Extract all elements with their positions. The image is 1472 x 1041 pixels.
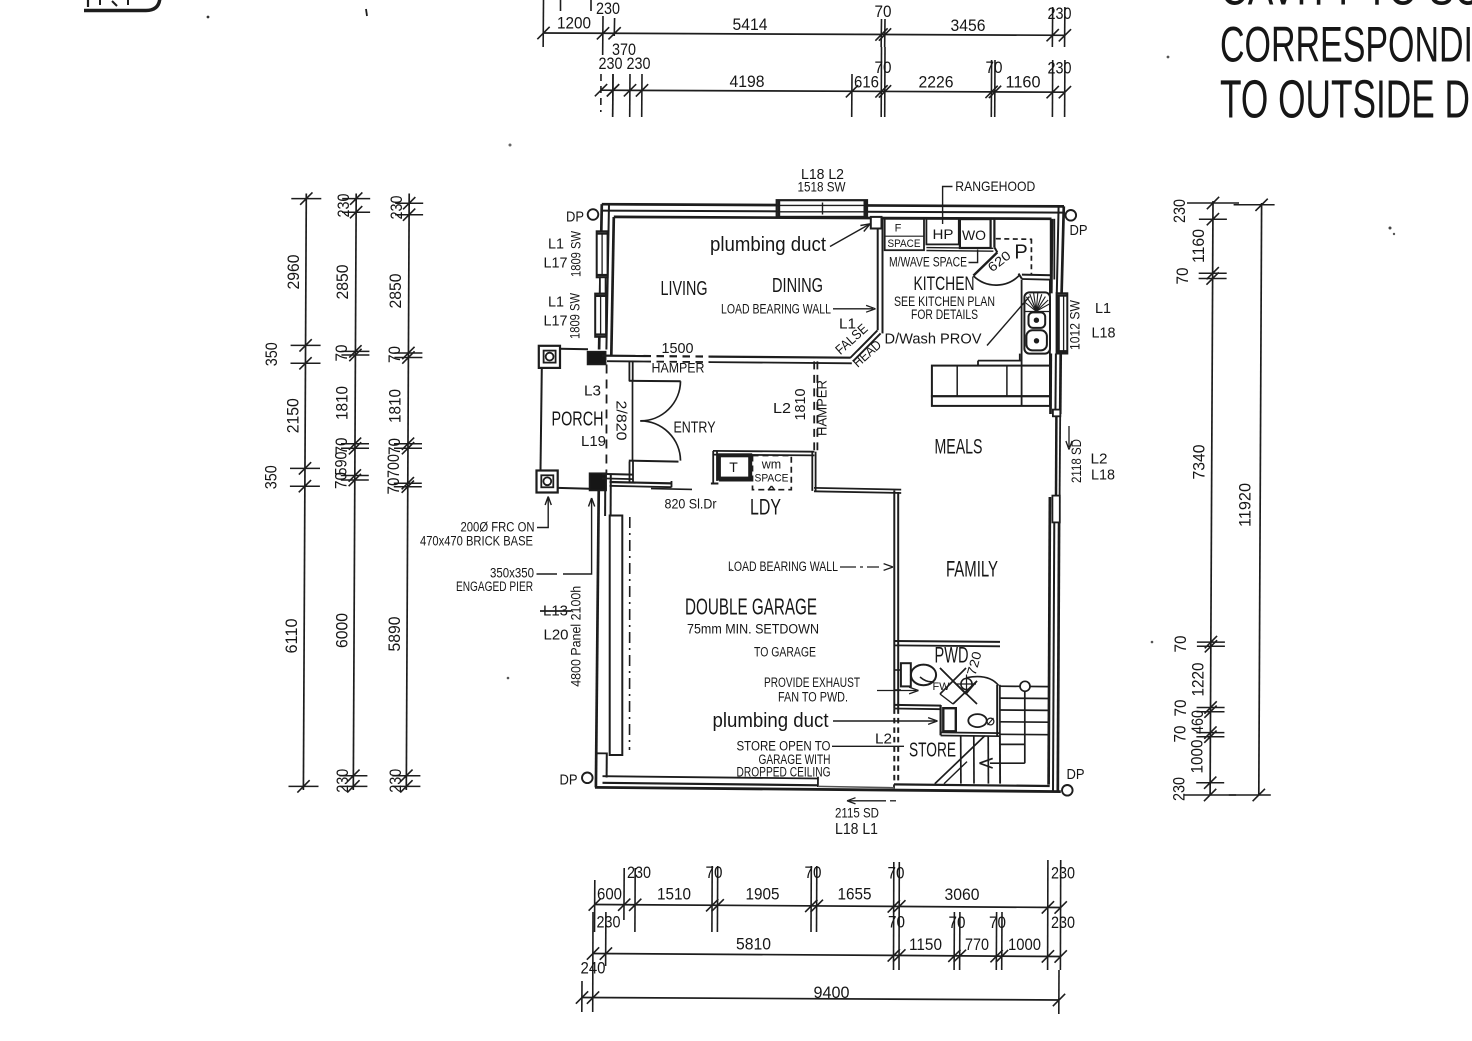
porch pier block bottom (solid) — [590, 473, 607, 490]
sink drainer fan — [1024, 311, 1050, 313]
svg-text:plumbing duct: plumbing duct — [710, 234, 826, 256]
vanity cross symbol 1 — [940, 668, 966, 694]
svg-text:350: 350 — [262, 465, 281, 489]
pantry lower jog + bottom wall — [1019, 274, 1022, 279]
entry door sill line — [629, 461, 679, 462]
svg-text:1000: 1000 — [1188, 740, 1207, 774]
svg-text:1905: 1905 — [746, 885, 780, 904]
wall: right exterior (outer+mid leafs) — [1062, 206, 1064, 293]
svg-text:70: 70 — [986, 58, 1003, 77]
svg-text:240: 240 — [581, 959, 606, 978]
svg-text:ENGAGED PIER: ENGAGED PIER — [456, 579, 533, 594]
svg-text:HP: HP — [933, 226, 954, 242]
svg-text:230: 230 — [386, 769, 405, 793]
right dim line D — [1210, 201, 1213, 796]
svg-text:DINING: DINING — [772, 275, 823, 297]
entry jamb vertical — [632, 381, 634, 461]
garage door panel rect — [610, 516, 623, 756]
stair break diagonal — [935, 736, 985, 784]
svg-text:FOR DETAILS: FOR DETAILS — [911, 307, 978, 322]
svg-text:wm: wm — [761, 457, 781, 471]
plumbing duct box (kitchen) — [871, 217, 882, 229]
svg-text:PWD: PWD — [935, 643, 969, 668]
svg-text:TO GARAGE: TO GARAGE — [754, 645, 816, 660]
svg-text:ENTRY: ENTRY — [674, 420, 716, 437]
svg-text:230: 230 — [1048, 59, 1072, 78]
porch edge top — [560, 348, 588, 350]
wall: false-head diagonal (dining/kitchen corner) — [850, 330, 877, 358]
svg-text:LIVING: LIVING — [661, 278, 708, 300]
wall: LDY right vertical (to family wall) — [811, 452, 813, 491]
svg-text:L2: L2 — [1091, 451, 1108, 468]
svg-text:70: 70 — [385, 438, 404, 455]
svg-text:F: F — [895, 223, 902, 235]
svg-text:2150: 2150 — [284, 398, 303, 433]
right dim line D ticks — [1187, 202, 1239, 204]
svg-text:7340: 7340 — [1190, 445, 1209, 480]
wall: bottom family inner leaf — [894, 784, 1050, 786]
svg-text:FAMILY: FAMILY — [946, 557, 998, 582]
svg-text:70: 70 — [989, 913, 1006, 932]
svg-text:PORCH: PORCH — [552, 409, 604, 431]
svg-text:70: 70 — [805, 863, 822, 882]
svg-text:2/820: 2/820 — [613, 401, 630, 441]
svg-text:1160: 1160 — [1189, 229, 1208, 263]
svg-text:L3: L3 — [584, 383, 601, 400]
left dim line B — [353, 194, 356, 791]
wall: 1810 hamper dashed vertical — [813, 361, 815, 450]
svg-text:70: 70 — [888, 864, 905, 883]
wall: bottom exterior outer — [595, 787, 1061, 791]
svg-text:TO OUTSIDE D: TO OUTSIDE D — [1220, 70, 1470, 130]
svg-text:1012 SW: 1012 SW — [1068, 300, 1083, 350]
row1 extension stubs from cut page — [560, 0, 562, 11]
svg-text:L18 L1: L18 L1 — [835, 821, 878, 838]
svg-text:230: 230 — [627, 863, 651, 882]
svg-text:DP: DP — [1070, 222, 1088, 239]
porch pier block top (solid) — [588, 352, 606, 365]
scan speck marks — [1389, 227, 1392, 230]
svg-text:5810: 5810 — [736, 935, 771, 954]
pantry door 620 swing arc — [973, 275, 1020, 286]
svg-text:DP: DP — [566, 209, 584, 226]
island bench — [932, 366, 1050, 397]
svg-text:230: 230 — [596, 0, 620, 18]
bottom dim row3 ticks — [581, 981, 583, 1012]
svg-text:70: 70 — [706, 863, 723, 882]
wall: left garage outer — [596, 474, 599, 788]
dimension row 2 ticks — [612, 74, 614, 117]
svg-text:DP: DP — [1067, 766, 1085, 783]
bottom dim row2 ticks — [592, 912, 594, 1012]
svg-text:CORRESPONDI: CORRESPONDI — [1220, 17, 1472, 73]
svg-text:590: 590 — [332, 452, 351, 476]
wall: LDY left + foot — [712, 451, 714, 485]
porch post bottom-left — [537, 471, 558, 493]
stair rail vertical — [1024, 691, 1026, 763]
svg-text:1809 SW: 1809 SW — [569, 231, 584, 277]
svg-text:T: T — [729, 459, 738, 475]
wall: family/garage load bearing — [893, 491, 895, 709]
svg-text:plumbing duct: plumbing duct — [713, 710, 829, 732]
svg-text:230: 230 — [334, 194, 353, 218]
door: 820 sliding panel line — [651, 488, 692, 491]
svg-text:700: 700 — [384, 454, 403, 478]
svg-text:STORE: STORE — [909, 740, 956, 762]
wall: front 1500 hamper dashed opening — [644, 355, 712, 358]
svg-text:1810: 1810 — [333, 386, 352, 420]
svg-text:KITCHEN: KITCHEN — [914, 274, 975, 295]
dimension row 2 line (370/230/4198/616/70/2226/70/1160/230) — [601, 90, 1065, 92]
bottom dim row1 line — [595, 905, 1061, 908]
svg-text:SPACE: SPACE — [888, 238, 921, 250]
wall: left garage top stub — [604, 474, 606, 517]
svg-text:230: 230 — [1051, 864, 1075, 883]
entry alcove bottom wall — [602, 473, 633, 476]
svg-text:2115 SD: 2115 SD — [835, 805, 879, 821]
svg-text:SPACE: SPACE — [755, 473, 789, 485]
svg-text:L18: L18 — [1091, 467, 1115, 484]
PWD vanity wall stub left — [894, 669, 901, 671]
wall: store dashed (open to garage) — [893, 708, 895, 783]
toilet bowl — [911, 665, 936, 686]
svg-text:WO: WO — [962, 227, 986, 243]
svg-text:1810: 1810 — [386, 389, 405, 423]
svg-text:LDY: LDY — [750, 495, 781, 520]
svg-text:600: 600 — [597, 885, 622, 904]
wall oven box WO — [960, 219, 991, 248]
svg-text:70: 70 — [385, 346, 404, 363]
kitchen inner wall right (pantry to top) — [1050, 219, 1052, 280]
svg-text:1518 SW: 1518 SW — [798, 180, 846, 195]
dimension row 1 line (1200/230/5414/70/3456/230) — [544, 33, 1066, 35]
svg-text:470x470 BRICK BASE: 470x470 BRICK BASE — [420, 534, 533, 549]
svg-text:L1: L1 — [548, 294, 564, 311]
bottom dim row1 ticks — [594, 880, 596, 932]
wall: 820 Sl.Dr wall segment + end hook — [610, 482, 672, 483]
svg-text:70: 70 — [949, 913, 966, 932]
svg-text:70: 70 — [875, 2, 892, 21]
vanity diamond edges — [940, 668, 953, 681]
window: 1809 SW lower (left wall) — [595, 294, 606, 337]
svg-text:L2: L2 — [773, 400, 791, 417]
svg-text:1500: 1500 — [662, 340, 694, 357]
svg-text:LOAD BEARING WALL: LOAD BEARING WALL — [721, 301, 831, 316]
svg-text:PROVIDE EXHAUST: PROVIDE EXHAUST — [764, 675, 860, 690]
svg-text:L2: L2 — [875, 731, 892, 748]
svg-text:1655: 1655 — [838, 885, 872, 904]
svg-text:1160: 1160 — [1006, 73, 1041, 92]
svg-text:5890: 5890 — [385, 617, 404, 652]
svg-text:70: 70 — [1171, 636, 1190, 653]
svg-text:L17: L17 — [544, 255, 568, 272]
wall: LDY top — [713, 450, 814, 453]
svg-text:230: 230 — [1170, 777, 1189, 801]
svg-text:5414: 5414 — [733, 15, 768, 34]
garage door dash-dot track — [629, 517, 631, 750]
svg-text:75mm MIN. SETDOWN: 75mm MIN. SETDOWN — [687, 622, 819, 637]
porch post top-left — [539, 346, 560, 368]
svg-text:460: 460 — [1188, 710, 1207, 734]
svg-text:4800 Panel 2100h: 4800 Panel 2100h — [569, 586, 584, 687]
pantry door leaf diagonal — [973, 252, 997, 275]
svg-text:LOAD BEARING WALL: LOAD BEARING WALL — [728, 559, 838, 574]
svg-text:2850: 2850 — [333, 265, 352, 300]
svg-text:CAVITY TO SU: CAVITY TO SU — [1220, 0, 1472, 16]
svg-text:230: 230 — [1170, 199, 1189, 223]
downpipe DP bottom-left — [582, 773, 593, 784]
svg-text:1000: 1000 — [1008, 935, 1041, 954]
svg-text:820 Sl.Dr: 820 Sl.Dr — [665, 496, 717, 512]
fridge space box F SPACE — [885, 219, 924, 250]
duct basin ellipse — [968, 714, 986, 727]
svg-text:3060: 3060 — [945, 885, 980, 904]
wall: right sliding door 2118 SD thin line — [1055, 415, 1058, 497]
bench front under HP/WO — [926, 247, 993, 250]
basin circle + crosshair — [961, 678, 972, 689]
svg-text:9400: 9400 — [814, 983, 850, 1002]
stair newel circle — [1020, 681, 1030, 691]
svg-text:230: 230 — [333, 769, 352, 793]
PWD bench curves — [920, 677, 934, 682]
wall: front south of living, solid left part — [602, 355, 644, 358]
sink bowl 2 — [1026, 330, 1047, 350]
window: 1518 SW (top wall) — [777, 200, 867, 217]
svg-text:70: 70 — [1173, 268, 1192, 285]
wall: right exterior inner leaf — [1050, 219, 1053, 293]
svg-text:1810: 1810 — [792, 389, 809, 421]
svg-text:350: 350 — [262, 342, 281, 366]
svg-text:L20: L20 — [544, 627, 569, 644]
left dim line B ticks — [342, 198, 370, 200]
svg-text:70: 70 — [384, 478, 403, 495]
svg-text:2850: 2850 — [386, 274, 405, 309]
svg-text:6000: 6000 — [333, 613, 352, 648]
svg-text:230: 230 — [599, 54, 623, 73]
stair treads upper flight — [1000, 685, 1049, 687]
svg-text:HAMPER: HAMPER — [814, 380, 830, 436]
wall: LDY/family horizontal — [814, 488, 901, 490]
left dim line C — [406, 194, 409, 791]
svg-text:L19: L19 — [581, 433, 606, 450]
svg-text:DOUBLE GARAGE: DOUBLE GARAGE — [685, 594, 817, 620]
porch boundary dashed line — [605, 365, 607, 475]
vanity cross symbol 2 — [953, 681, 977, 704]
svg-text:6110: 6110 — [282, 619, 301, 654]
svg-text:HAMPER: HAMPER — [652, 360, 705, 376]
wall: bottom garage inner leafs — [603, 776, 819, 778]
right dim line E ticks — [1234, 204, 1275, 206]
svg-text:L1: L1 — [1095, 300, 1111, 317]
entry double door arcs — [640, 381, 680, 421]
svg-text:200Ø FRC ON: 200Ø FRC ON — [461, 520, 535, 535]
false head tick line — [858, 337, 872, 351]
downpipe DP top-left — [588, 209, 599, 220]
sink bowl 1 — [1029, 312, 1046, 328]
entry alcove step verticals — [628, 362, 630, 381]
stair lower flight vertical treads — [960, 736, 962, 784]
svg-text:230: 230 — [627, 54, 651, 73]
bottom dim row3 line (9400) — [582, 998, 1059, 1001]
svg-text:1150: 1150 — [909, 935, 942, 954]
pantry dashed outline — [996, 238, 1032, 241]
wall: left exterior upper (living) — [599, 204, 602, 349]
laundry tub T — [719, 455, 750, 478]
wall: PWD bottom — [894, 704, 941, 707]
svg-text:1200: 1200 — [557, 14, 591, 33]
wall: PWD top — [894, 640, 1000, 643]
svg-text:FW: FW — [932, 681, 950, 693]
svg-text:70: 70 — [888, 913, 905, 932]
svg-text:11920: 11920 — [1236, 483, 1255, 527]
window: 1809 SW upper (left wall) — [597, 231, 608, 277]
hotplate box HP — [926, 219, 958, 245]
entry door head line — [629, 380, 681, 382]
bench return near sink — [978, 360, 1022, 362]
svg-text:3456: 3456 — [951, 16, 986, 35]
svg-text:230: 230 — [1051, 913, 1075, 932]
svg-text:4198: 4198 — [730, 72, 765, 91]
svg-text:FAN TO PWD.: FAN TO PWD. — [778, 690, 848, 705]
svg-text:M/WAVE SPACE: M/WAVE SPACE — [889, 255, 967, 270]
svg-text:L17: L17 — [544, 313, 568, 330]
svg-text:2960: 2960 — [284, 255, 303, 290]
svg-text:70: 70 — [875, 58, 892, 77]
left dim line C ticks — [395, 202, 423, 204]
svg-text:230: 230 — [1048, 4, 1072, 23]
window: 1012 SW (right wall) — [1057, 293, 1068, 353]
wall: front solid right part to diagonal — [711, 357, 850, 358]
stair direction rail + arrow — [990, 762, 1025, 764]
svg-text:DP: DP — [560, 772, 578, 789]
svg-text:P: P — [1014, 242, 1027, 264]
svg-text:D/Wash PROV: D/Wash PROV — [885, 331, 982, 348]
svg-text:1510: 1510 — [657, 885, 691, 904]
duct compartment walls — [939, 705, 941, 735]
svg-text:L1: L1 — [548, 236, 564, 253]
wall: top exterior (outer leaf) — [602, 204, 1064, 206]
stair landing line — [1000, 743, 1025, 745]
alcove right return verticals — [629, 462, 631, 483]
toilet cistern — [901, 663, 911, 686]
left dim line A ticks — [291, 198, 321, 200]
svg-text:1220: 1220 — [1189, 663, 1208, 697]
right SD end blocks — [1053, 410, 1060, 417]
downpipe DP top-right — [1066, 210, 1077, 221]
svg-text:DROPPED CEILING: DROPPED CEILING — [737, 765, 831, 780]
svg-text:2118 SD: 2118 SD — [1069, 439, 1084, 483]
svg-text:MEALS: MEALS — [935, 436, 983, 459]
right dim line E — [1259, 203, 1262, 796]
wall: top exterior inner leaf — [614, 217, 1052, 219]
sink unit outer — [1024, 292, 1050, 353]
kitchen bench edges (right wall run) — [1021, 280, 1023, 406]
bottom dim row2 line — [593, 954, 1061, 957]
svg-text:770: 770 — [965, 935, 989, 954]
door: bottom 2115 SD panel line — [818, 786, 894, 787]
plumbing duct box (lower) — [943, 708, 956, 731]
duct small O-mark — [987, 718, 994, 725]
wall: left garage bottom stub — [606, 753, 608, 778]
svg-text:230: 230 — [597, 913, 621, 932]
washing machine space (dashed) wm SPACE — [753, 456, 792, 490]
svg-text:230: 230 — [387, 196, 406, 220]
svg-text:2226: 2226 — [919, 73, 954, 92]
svg-text:1809 SW: 1809 SW — [568, 293, 583, 339]
porch edge left — [541, 368, 542, 471]
svg-text:RANGEHOOD: RANGEHOOD — [955, 178, 1035, 194]
svg-text:70: 70 — [332, 472, 351, 489]
dimension row 1 ticks — [542, 0, 544, 47]
svg-text:70: 70 — [332, 345, 351, 362]
svg-text:L18: L18 — [1092, 325, 1116, 342]
downpipe DP bottom-right — [1062, 785, 1073, 796]
wall pier between 1809 windows — [600, 277, 606, 293]
wall: kitchen/dining vertical — [877, 219, 879, 330]
page corner artifact (rounded box edge) — [84, 0, 160, 11]
porch edge bottom — [558, 487, 590, 490]
left dim line A — [303, 194, 306, 791]
exhaust arrow to PWD — [877, 690, 916, 692]
pantry door jamb vertical — [993, 219, 995, 248]
